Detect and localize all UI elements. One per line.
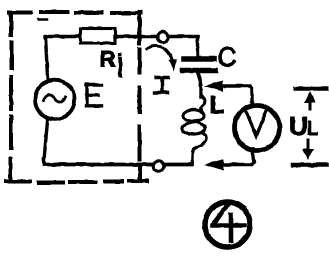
wire: capacitor to inductor (198, 73, 202, 97)
capacitor C bottom plate (183, 68, 216, 74)
voltmeter V circle (235, 106, 280, 151)
wire: corner down to source E top (46, 36, 48, 78)
svg-text:L: L (210, 92, 225, 119)
label C (220, 48, 235, 65)
node: top terminal (158, 32, 169, 43)
svg-text:R: R (100, 47, 116, 72)
UL top reference bar (296, 87, 327, 91)
wire: resistor to top terminal (115, 35, 156, 38)
wire: corner down to capacitor (196, 37, 199, 56)
source E circle (35, 80, 75, 120)
voltmeter bottom lead arrowhead (204, 159, 224, 171)
capacitor C top plate (184, 56, 214, 62)
figure number 4 (213, 206, 245, 241)
wire: inductor bottom to bottom rail (165, 162, 193, 165)
wire: source E bottom down (44, 121, 48, 160)
dashed source box left edge (11, 13, 12, 182)
UL down arrow (307, 140, 310, 152)
label E (86, 85, 102, 106)
wire: top-left corner to resistor (45, 35, 79, 38)
source E sine symbol (44, 95, 66, 102)
node: bottom terminal (153, 161, 164, 172)
inductor L (183, 110, 204, 122)
svg-text:L: L (307, 119, 318, 139)
voltmeter top lead (222, 86, 252, 106)
svg-text:U: U (289, 111, 308, 141)
current arrow I (147, 46, 172, 61)
figure number 4 badge circle (205, 202, 250, 247)
dashed source box top edge (9, 12, 141, 13)
UL bottom reference bar (293, 163, 327, 168)
wire: bottom terminal to source E (44, 159, 154, 165)
resistor Ri (81, 29, 116, 44)
UL up arrow (309, 97, 312, 109)
dashed source box bottom edge (6, 181, 147, 183)
voltmeter bottom lead (224, 151, 254, 165)
dashed source box right edge (138, 12, 143, 181)
wire: top terminal to capacitor corner (169, 35, 198, 38)
voltmeter V letter (247, 112, 267, 137)
stray mark under top edge (38, 18, 47, 21)
label I (155, 78, 169, 93)
voltmeter top lead arrowhead (204, 81, 223, 92)
